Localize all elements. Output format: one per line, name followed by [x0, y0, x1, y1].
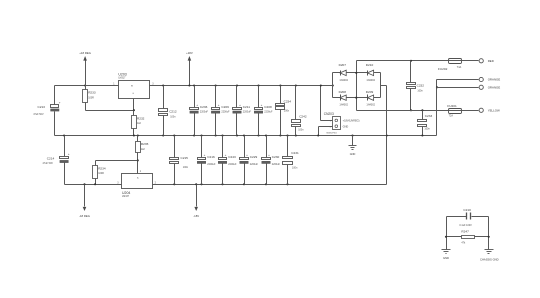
svg-text:C210: C210 — [463, 208, 471, 212]
svg-text:GND: GND — [343, 124, 349, 128]
svg-text:+: + — [218, 103, 220, 107]
svg-text:+18V: +18V — [186, 51, 193, 55]
svg-text:2200uF: 2200uF — [250, 163, 259, 166]
svg-text:R232: R232 — [137, 116, 145, 120]
svg-text:C213: C213 — [38, 105, 46, 109]
svg-text:D207: D207 — [339, 63, 347, 67]
svg-text:C211: C211 — [243, 105, 250, 109]
svg-text:+: + — [225, 153, 227, 157]
svg-text:100n: 100n — [284, 110, 290, 113]
svg-text:C236: C236 — [200, 105, 208, 109]
svg-text:100n: 100n — [298, 129, 304, 132]
svg-text:ORANGE: ORANGE — [488, 86, 501, 90]
svg-text:100R: 100R — [88, 96, 94, 99]
svg-text:C243: C243 — [228, 155, 236, 159]
svg-text:C209: C209 — [221, 105, 229, 109]
svg-text:1N4002: 1N4002 — [366, 79, 375, 82]
svg-text:1N4002: 1N4002 — [366, 104, 375, 107]
svg-text:+: + — [59, 101, 61, 105]
svg-text:D208: D208 — [339, 90, 347, 94]
svg-text:R247: R247 — [461, 230, 469, 234]
svg-text:D210: D210 — [366, 63, 374, 67]
svg-text:100n: 100n — [292, 167, 298, 170]
svg-text:1k2: 1k2 — [141, 148, 146, 151]
svg-text:100n: 100n — [170, 116, 176, 119]
svg-text:100n: 100n — [183, 166, 189, 169]
svg-text:47uF 50V: 47uF 50V — [43, 162, 54, 165]
svg-text:ORANGE: ORANGE — [488, 78, 501, 82]
svg-text:NDM-PSU: NDM-PSU — [327, 133, 338, 135]
svg-text:2200uF: 2200uF — [200, 111, 209, 114]
svg-text:RED: RED — [488, 59, 494, 63]
svg-text:T4A: T4A — [457, 66, 462, 69]
svg-text:U203: U203 — [118, 72, 126, 76]
svg-text:C234: C234 — [284, 99, 292, 103]
svg-text:0.1uF 100V: 0.1uF 100V — [459, 224, 472, 227]
svg-text:LM317: LM317 — [118, 78, 126, 80]
svg-text:LM337: LM337 — [122, 196, 130, 198]
svg-text:CN203: CN203 — [324, 112, 334, 116]
svg-text:FU201: FU201 — [447, 104, 457, 108]
svg-text:C215: C215 — [181, 156, 189, 160]
svg-text:-18V: -18V — [193, 214, 199, 218]
svg-text:C231: C231 — [291, 151, 299, 155]
svg-text:1N4002: 1N4002 — [339, 79, 348, 82]
svg-text:-18 REG: -18 REG — [79, 214, 90, 218]
svg-text:+: + — [246, 153, 248, 157]
svg-text:T2A: T2A — [449, 115, 454, 118]
svg-text:D209: D209 — [366, 90, 374, 94]
svg-text:2200uF: 2200uF — [272, 163, 281, 166]
svg-text:C214: C214 — [47, 156, 55, 160]
svg-text:C216: C216 — [207, 155, 215, 159]
svg-text:U204: U204 — [122, 191, 130, 195]
svg-text:R235: R235 — [141, 142, 149, 146]
svg-text:C232: C232 — [417, 83, 425, 87]
svg-text:47uF 50V: 47uF 50V — [33, 113, 44, 116]
svg-text:2200uF: 2200uF — [221, 111, 230, 114]
svg-text:GND: GND — [350, 153, 356, 156]
svg-text:C230: C230 — [272, 155, 280, 159]
svg-text:C233: C233 — [425, 114, 433, 118]
svg-text:1k2: 1k2 — [137, 122, 142, 125]
svg-text:+: + — [204, 153, 206, 157]
svg-text:+: + — [68, 152, 70, 156]
svg-text:100R: 100R — [98, 172, 104, 175]
svg-text:2200uF: 2200uF — [264, 111, 273, 114]
svg-text:+: + — [261, 103, 263, 107]
svg-text:+: + — [268, 153, 270, 157]
svg-text:YELLOW: YELLOW — [488, 109, 500, 113]
svg-text:C229: C229 — [250, 155, 258, 159]
svg-text:C242: C242 — [299, 115, 307, 119]
svg-text:2200uF: 2200uF — [243, 111, 252, 114]
svg-text:R233: R233 — [88, 91, 96, 95]
svg-text:100n: 100n — [417, 90, 423, 93]
svg-text:FU202: FU202 — [438, 67, 448, 71]
svg-text:100n: 100n — [424, 128, 430, 131]
svg-text:+: + — [196, 103, 198, 107]
svg-text:R234: R234 — [98, 166, 106, 170]
svg-text:2200uF: 2200uF — [207, 163, 216, 166]
svg-text:GND: GND — [443, 256, 449, 260]
svg-text:+18 REG: +18 REG — [79, 51, 91, 55]
svg-text:+: + — [239, 103, 241, 107]
svg-text:+18V(UNREG): +18V(UNREG) — [343, 119, 360, 123]
svg-text:C208: C208 — [264, 105, 272, 109]
svg-text:2200uF: 2200uF — [228, 163, 237, 166]
svg-text:1N4002: 1N4002 — [339, 104, 348, 107]
svg-text:C212: C212 — [169, 109, 177, 113]
svg-text:CHASSIS GND: CHASSIS GND — [480, 257, 499, 261]
